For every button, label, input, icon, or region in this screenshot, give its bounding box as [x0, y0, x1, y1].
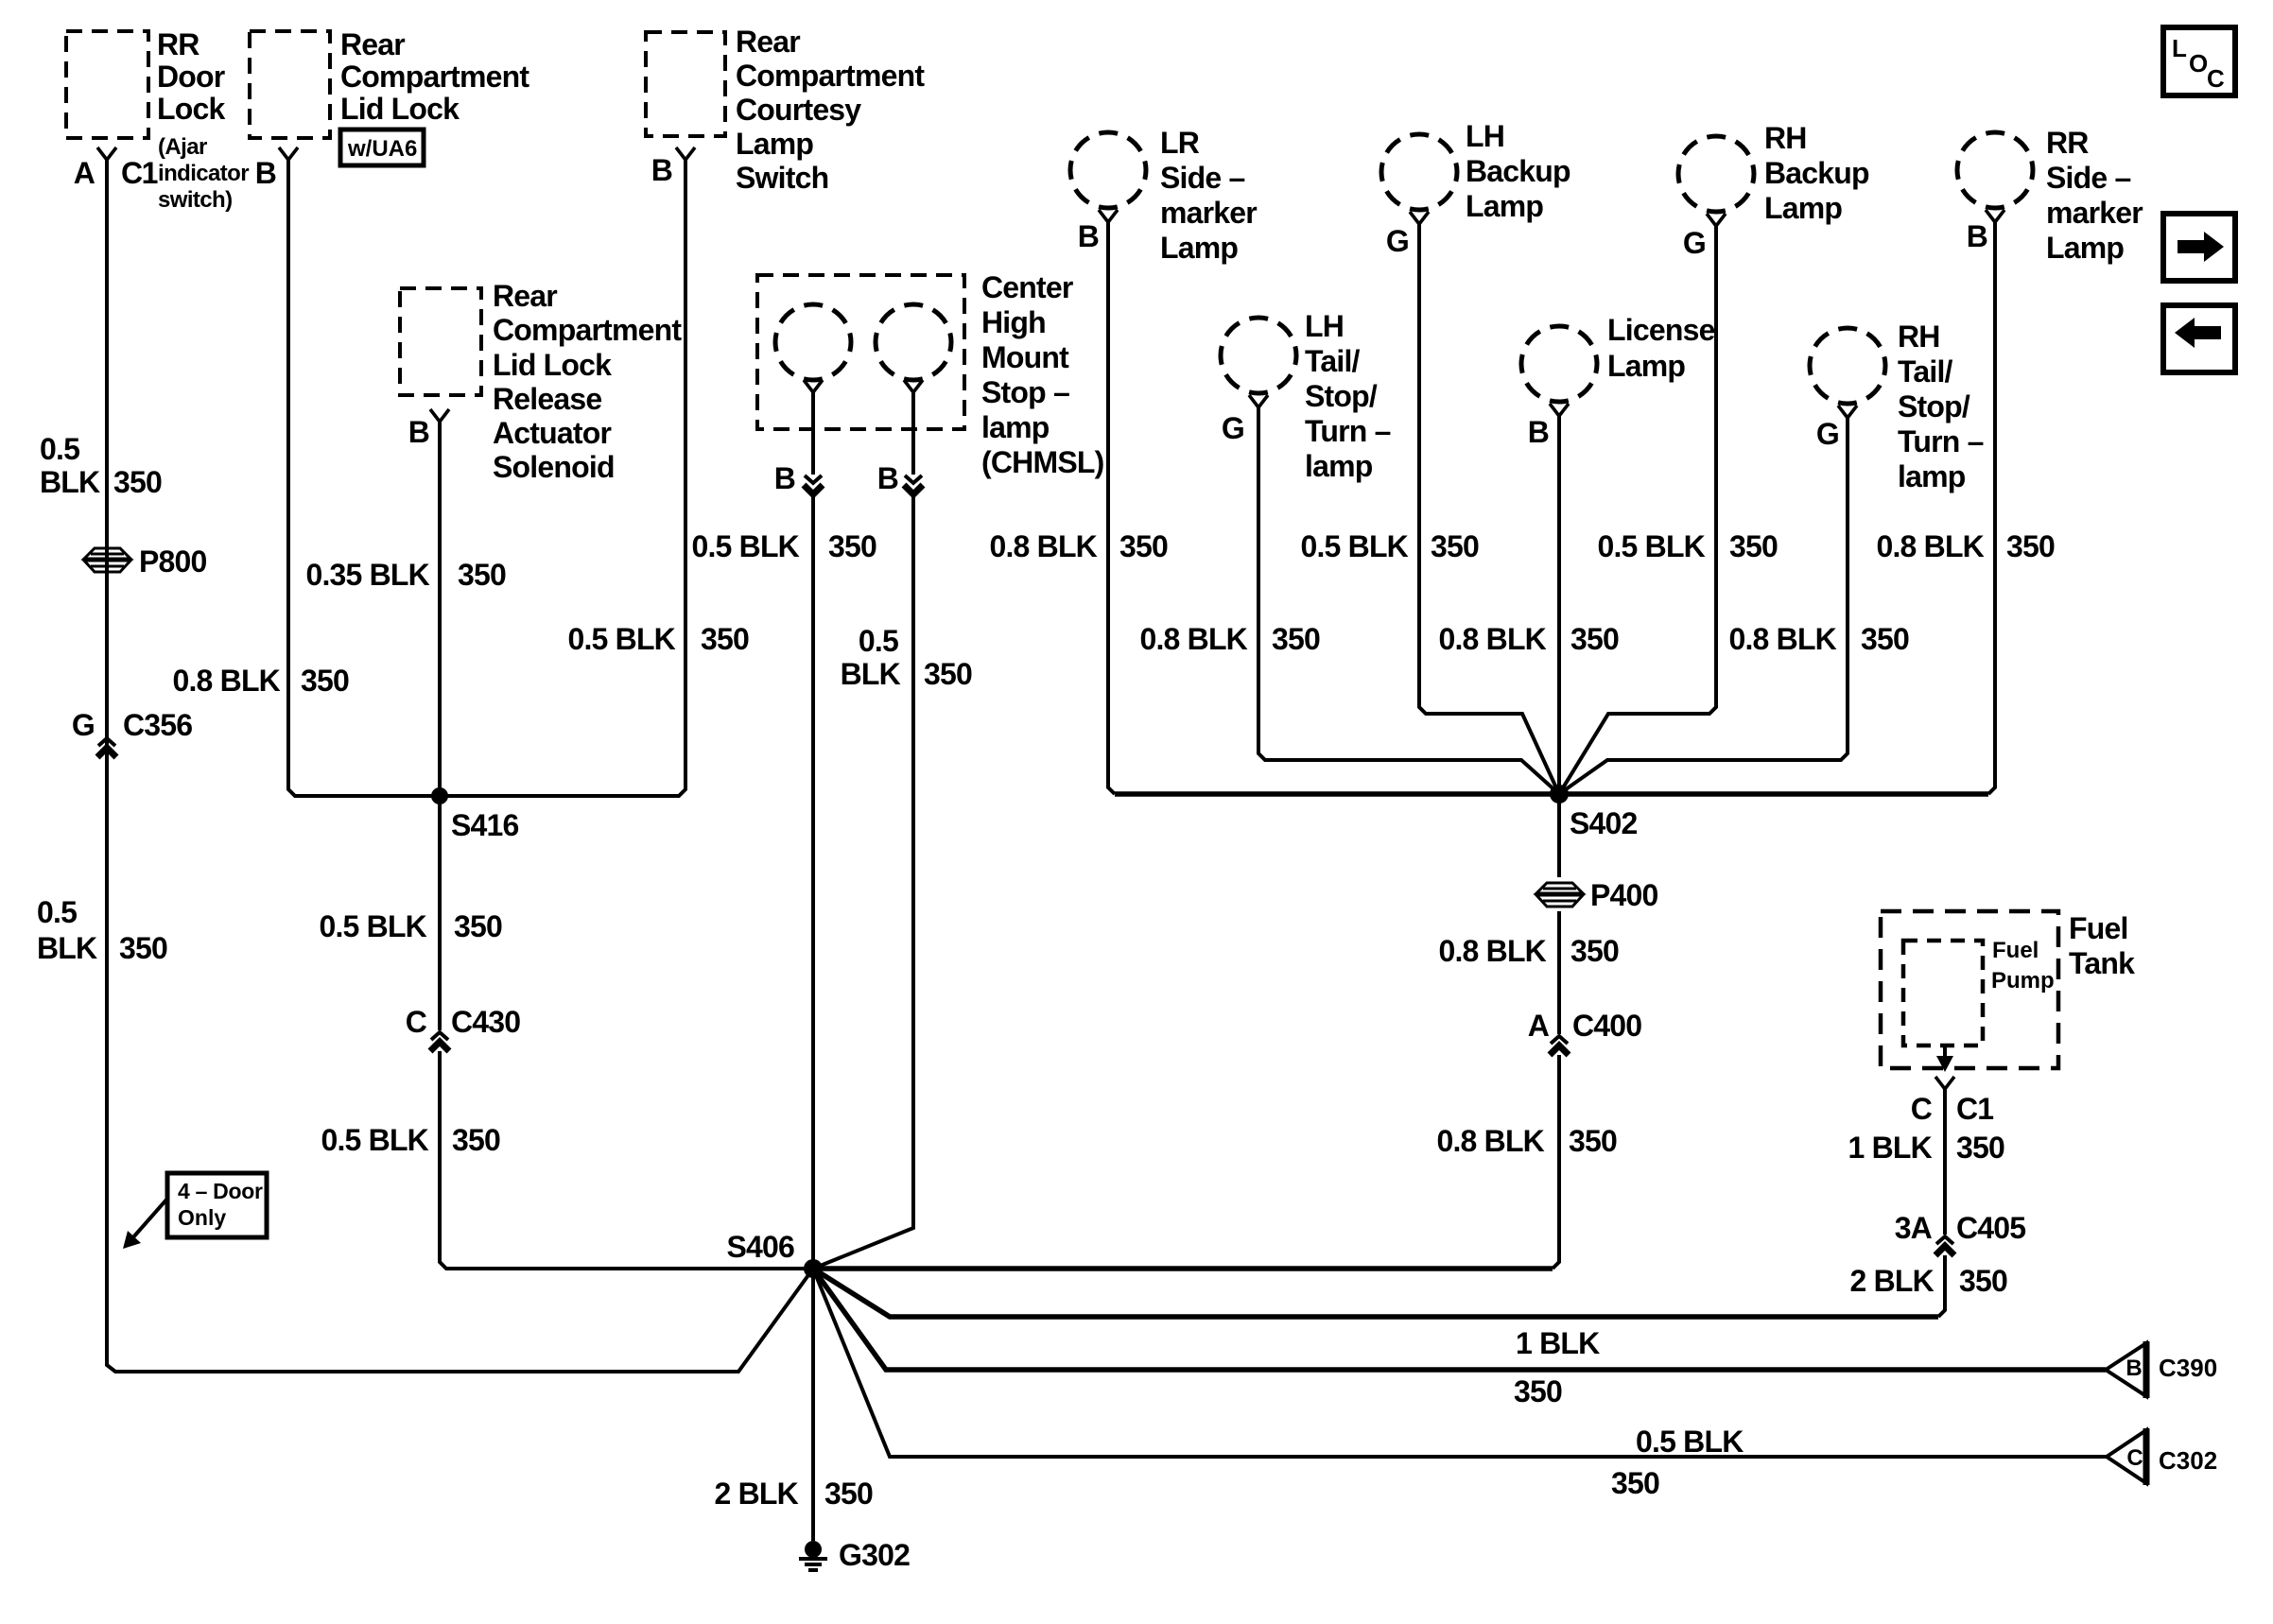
svg-text:0.5: 0.5: [40, 432, 79, 466]
svg-text:Lock: Lock: [157, 92, 225, 126]
svg-text:0.8 BLK: 0.8 BLK: [1438, 934, 1546, 968]
svg-text:Mount: Mount: [981, 340, 1069, 374]
svg-text:4 – Door: 4 – Door: [178, 1179, 263, 1203]
svg-text:0.5 BLK: 0.5 BLK: [319, 909, 426, 943]
svg-text:G: G: [1222, 411, 1244, 445]
svg-text:P800: P800: [139, 544, 207, 579]
svg-text:0.8 BLK: 0.8 BLK: [1436, 1124, 1544, 1158]
svg-text:Actuator: Actuator: [493, 416, 612, 450]
svg-text:Stop –: Stop –: [981, 375, 1069, 409]
svg-text:LH: LH: [1305, 309, 1344, 343]
svg-text:0.5 BLK: 0.5 BLK: [1300, 529, 1408, 563]
svg-text:lamp: lamp: [1305, 449, 1373, 483]
svg-text:B: B: [1528, 415, 1549, 449]
svg-text:C356: C356: [123, 708, 192, 742]
svg-text:Switch: Switch: [736, 161, 828, 195]
svg-text:C400: C400: [1572, 1009, 1641, 1043]
svg-text:G: G: [1386, 224, 1409, 258]
svg-text:L: L: [2172, 34, 2187, 62]
svg-text:350: 350: [1272, 622, 1320, 656]
svg-text:350: 350: [454, 909, 502, 943]
svg-text:0.8 BLK: 0.8 BLK: [1139, 622, 1247, 656]
svg-text:350: 350: [2006, 529, 2055, 563]
svg-text:350: 350: [1569, 1124, 1617, 1158]
svg-text:RH: RH: [1898, 320, 1940, 354]
svg-text:Side –: Side –: [2046, 161, 2130, 195]
svg-text:Rear: Rear: [736, 25, 800, 59]
svg-text:350: 350: [1729, 529, 1778, 563]
svg-text:350: 350: [1956, 1131, 2004, 1165]
svg-text:B: B: [774, 461, 795, 495]
svg-text:Lamp: Lamp: [1764, 191, 1842, 225]
svg-text:B: B: [877, 461, 898, 495]
svg-text:Tail/: Tail/: [1898, 354, 1953, 389]
svg-text:G: G: [1816, 417, 1839, 451]
svg-text:0.35 BLK: 0.35 BLK: [305, 558, 429, 592]
svg-text:Compartment: Compartment: [493, 313, 682, 347]
svg-text:C302: C302: [2159, 1446, 2217, 1475]
svg-text:A: A: [1528, 1009, 1550, 1043]
svg-text:Compartment: Compartment: [736, 59, 925, 93]
svg-text:Lamp: Lamp: [2046, 231, 2124, 265]
svg-text:0.5: 0.5: [37, 895, 77, 929]
svg-text:350: 350: [113, 465, 162, 499]
svg-text:G: G: [72, 708, 95, 742]
svg-text:Rear: Rear: [493, 279, 557, 313]
svg-text:marker: marker: [1160, 196, 1257, 230]
svg-text:Side –: Side –: [1160, 161, 1244, 195]
svg-text:G: G: [1683, 226, 1706, 260]
svg-text:350: 350: [1570, 622, 1619, 656]
svg-text:350: 350: [1570, 934, 1619, 968]
svg-text:0.8 BLK: 0.8 BLK: [1876, 529, 1984, 563]
svg-text:BLK: BLK: [37, 931, 97, 965]
svg-text:Only: Only: [178, 1205, 226, 1230]
svg-text:RH: RH: [1764, 121, 1807, 155]
svg-text:BLK: BLK: [841, 657, 901, 691]
svg-text:350: 350: [701, 622, 749, 656]
svg-text:Lamp: Lamp: [1466, 189, 1543, 223]
svg-text:350: 350: [1119, 529, 1168, 563]
svg-text:Tank: Tank: [2069, 946, 2135, 980]
svg-text:C: C: [2207, 64, 2225, 93]
svg-text:C: C: [2126, 1445, 2143, 1471]
svg-text:lamp: lamp: [1898, 459, 1966, 493]
svg-text:Compartment: Compartment: [340, 60, 529, 94]
svg-text:350: 350: [119, 931, 167, 965]
svg-text:Rear: Rear: [340, 27, 405, 61]
svg-text:LR: LR: [1160, 126, 1200, 160]
svg-text:(Ajar: (Ajar: [158, 134, 207, 160]
svg-text:B: B: [408, 415, 429, 449]
svg-text:indicator: indicator: [158, 161, 249, 186]
svg-text:Lamp: Lamp: [736, 127, 813, 161]
svg-text:Pump: Pump: [1991, 968, 2055, 993]
svg-text:Backup: Backup: [1764, 156, 1869, 190]
svg-text:LH: LH: [1466, 119, 1504, 153]
svg-text:P400: P400: [1590, 878, 1658, 912]
svg-text:3A: 3A: [1895, 1211, 1933, 1245]
svg-text:S406: S406: [726, 1230, 794, 1264]
svg-text:C430: C430: [451, 1005, 520, 1039]
svg-text:350: 350: [1861, 622, 1909, 656]
svg-text:B: B: [2126, 1356, 2142, 1381]
svg-text:2 BLK: 2 BLK: [715, 1477, 799, 1511]
svg-text:1 BLK: 1 BLK: [1848, 1131, 1933, 1165]
svg-text:Lamp: Lamp: [1607, 349, 1685, 383]
svg-text:High: High: [981, 305, 1046, 339]
svg-text:Tail/: Tail/: [1305, 344, 1361, 378]
svg-text:B: B: [1967, 219, 1987, 253]
svg-text:G302: G302: [839, 1538, 910, 1572]
svg-text:0.5: 0.5: [859, 624, 898, 658]
svg-text:0.5 BLK: 0.5 BLK: [1597, 529, 1705, 563]
svg-text:RR: RR: [157, 27, 200, 61]
svg-text:Backup: Backup: [1466, 154, 1570, 188]
svg-text:0.5 BLK: 0.5 BLK: [567, 622, 675, 656]
svg-text:2 BLK: 2 BLK: [1850, 1264, 1935, 1298]
svg-text:lamp: lamp: [981, 410, 1050, 444]
svg-text:350: 350: [1431, 529, 1479, 563]
svg-text:Fuel: Fuel: [1992, 938, 2039, 963]
svg-text:0.5 BLK: 0.5 BLK: [1636, 1425, 1744, 1459]
svg-text:Lid Lock: Lid Lock: [493, 348, 612, 382]
svg-text:350: 350: [1959, 1264, 2007, 1298]
svg-text:C1: C1: [1956, 1092, 1993, 1126]
svg-text:350: 350: [301, 664, 349, 698]
svg-text:350: 350: [1514, 1374, 1562, 1408]
svg-text:(CHMSL): (CHMSL): [981, 445, 1104, 479]
svg-text:350: 350: [828, 529, 876, 563]
svg-text:Stop/: Stop/: [1305, 379, 1378, 413]
svg-text:0.8 BLK: 0.8 BLK: [172, 664, 280, 698]
svg-text:350: 350: [458, 558, 506, 592]
svg-text:RR: RR: [2046, 126, 2089, 160]
svg-text:C: C: [1911, 1092, 1933, 1126]
svg-text:1 BLK: 1 BLK: [1516, 1326, 1600, 1360]
svg-text:O: O: [2189, 49, 2208, 78]
svg-text:Lamp: Lamp: [1160, 231, 1238, 265]
svg-text:w/UA6: w/UA6: [347, 136, 417, 162]
svg-text:B: B: [1078, 219, 1099, 253]
svg-text:marker: marker: [2046, 196, 2143, 230]
svg-text:Lid Lock: Lid Lock: [340, 92, 460, 126]
svg-text:A: A: [74, 156, 95, 190]
svg-text:License: License: [1607, 313, 1715, 347]
svg-text:350: 350: [452, 1123, 500, 1157]
svg-text:Center: Center: [981, 270, 1073, 304]
svg-text:Fuel: Fuel: [2069, 911, 2128, 945]
svg-text:Release: Release: [493, 382, 601, 416]
svg-text:C: C: [406, 1005, 427, 1039]
svg-text:0.8 BLK: 0.8 BLK: [989, 529, 1097, 563]
svg-text:0.8 BLK: 0.8 BLK: [1438, 622, 1546, 656]
svg-text:Door: Door: [157, 60, 225, 94]
svg-text:Stop/: Stop/: [1898, 389, 1970, 423]
svg-text:Turn –: Turn –: [1898, 424, 1984, 458]
svg-text:B: B: [651, 153, 672, 187]
svg-text:C405: C405: [1956, 1211, 2025, 1245]
svg-text:Solenoid: Solenoid: [493, 450, 615, 484]
svg-text:Courtesy: Courtesy: [736, 93, 861, 127]
svg-text:Turn –: Turn –: [1305, 414, 1391, 448]
svg-text:switch): switch): [158, 187, 232, 213]
svg-text:S402: S402: [1570, 806, 1638, 840]
svg-text:0.8 BLK: 0.8 BLK: [1728, 622, 1836, 656]
svg-text:350: 350: [824, 1477, 873, 1511]
svg-text:C1: C1: [121, 156, 158, 190]
svg-text:S416: S416: [451, 808, 519, 842]
svg-text:350: 350: [1611, 1466, 1659, 1500]
svg-text:C390: C390: [2159, 1354, 2217, 1382]
svg-text:B: B: [255, 156, 276, 190]
svg-text:BLK: BLK: [40, 465, 100, 499]
svg-text:0.5 BLK: 0.5 BLK: [321, 1123, 428, 1157]
svg-text:350: 350: [924, 657, 972, 691]
svg-text:0.5 BLK: 0.5 BLK: [691, 529, 799, 563]
